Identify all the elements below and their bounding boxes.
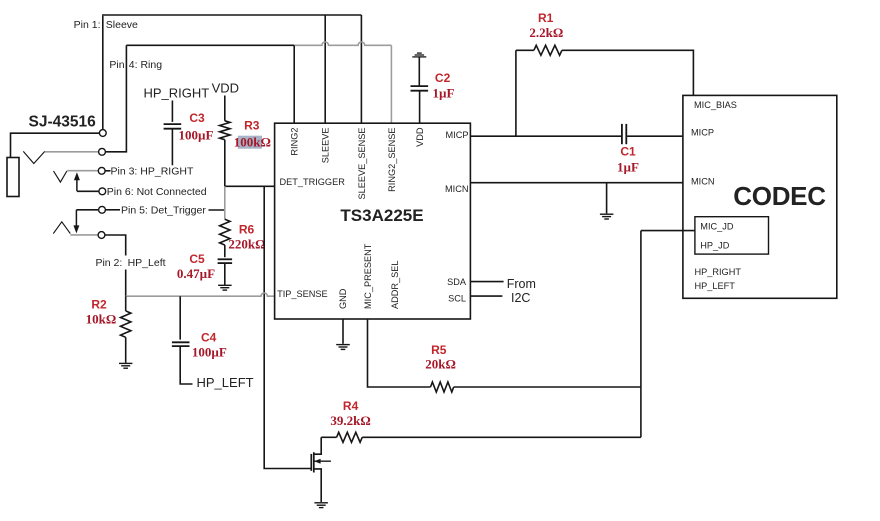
svg-text:Pin: Pin: [109, 59, 124, 71]
wire R4 to MIC_JD node: [362, 436, 641, 438]
svg-text:1µF: 1µF: [617, 159, 639, 174]
resistor R4: [337, 432, 363, 442]
svg-text:Sleeve: Sleeve: [106, 19, 138, 31]
svg-text:10kΩ: 10kΩ: [86, 312, 117, 327]
wire MICN ground stub: [606, 183, 608, 214]
wire C2 to inverted ground: [418, 57, 420, 86]
wire pin3 spring to contact (gray): [67, 170, 98, 172]
svg-text:MICN: MICN: [691, 177, 714, 187]
svg-text:TS3A225E: TS3A225E: [340, 206, 423, 225]
wire Q1 drain: [314, 437, 321, 454]
jack ring spring contact: [23, 151, 45, 163]
wire ring drop to RING2 pin: [293, 45, 295, 123]
svg-text:HP_LEFT: HP_LEFT: [695, 281, 736, 291]
wire HP_RIGHT to C3: [171, 101, 173, 122]
wire pin6 contact to arrow: [77, 190, 99, 192]
svg-text:SDA: SDA: [447, 277, 467, 287]
switch arrow down (pin5 to pin2 contact): [75, 210, 77, 227]
wire MICN to CODEC: [470, 182, 683, 184]
wire ring contact up to Pin4 net: [105, 45, 126, 152]
wire drain to R4: [321, 436, 336, 438]
svg-text:RING2: RING2: [290, 128, 300, 156]
wire SDA: [470, 281, 503, 283]
wire to R1: [516, 49, 534, 51]
resistor R6: [220, 219, 230, 245]
wire C1 to CODEC MICP: [627, 135, 683, 137]
jack tip spring contact (pin 3): [54, 171, 67, 182]
jack pin 2 contact: [98, 232, 105, 239]
svg-text:R2: R2: [91, 298, 107, 312]
wire pin5 contact to switch arrow: [76, 209, 98, 211]
highlight box on 100k: [238, 136, 262, 149]
svg-text:2.2kΩ: 2.2kΩ: [529, 25, 563, 40]
svg-text:220kΩ: 220kΩ: [228, 237, 265, 252]
svg-text:C1: C1: [620, 145, 636, 159]
wire R5 to MIC_JD node: [454, 386, 641, 388]
svg-text:100µF: 100µF: [179, 128, 214, 143]
svg-text:MICP: MICP: [446, 130, 469, 140]
connector SJ-43516 jack body: [7, 158, 19, 197]
svg-text:SJ-43516: SJ-43516: [29, 114, 97, 131]
wire GND pin to ground: [342, 319, 344, 344]
ground under Q1: [314, 502, 328, 504]
wire Pin 4: Ring net run with hops over sleeve wires: [126, 44, 294, 46]
wire ring spring to contact (gray): [45, 151, 100, 153]
svg-text:RING2_SENSE: RING2_SENSE: [387, 128, 397, 192]
ground above C2 (inverted): [412, 56, 426, 58]
ground under R2: [119, 362, 132, 364]
wire SCL: [470, 295, 502, 297]
ground under GND pin: [336, 344, 350, 346]
svg-text:I2C: I2C: [511, 291, 530, 305]
svg-text:SLEEVE_SENSE: SLEEVE_SENSE: [357, 128, 367, 200]
wire C5 to ground: [224, 263, 226, 285]
svg-text:MIC_PRESENT: MIC_PRESENT: [363, 243, 373, 309]
wire MIC_JD vertical node: [640, 231, 642, 438]
svg-text:R3: R3: [244, 118, 260, 132]
wire MICP to R1 branch: [470, 135, 621, 137]
svg-text:C4: C4: [201, 330, 217, 344]
wire det node down to R6 (gray): [224, 186, 226, 219]
wire C4 to HP_LEFT label: [180, 347, 192, 385]
svg-text:39.2kΩ: 39.2kΩ: [330, 413, 370, 428]
wire R1 left leg: [515, 50, 517, 136]
svg-text:From: From: [507, 277, 536, 291]
svg-text:1µF: 1µF: [433, 85, 455, 100]
wire node to MIC_JD box: [641, 230, 695, 232]
switch arrow up (pin6 to pin3 contact): [76, 179, 78, 191]
wire VDD pin to C2: [419, 91, 421, 123]
wire sleeve contact up to Pin1 net: [102, 16, 104, 130]
wire to R2: [125, 296, 127, 311]
svg-text:C2: C2: [435, 71, 451, 85]
svg-text:Pin 3: HP_RIGHT: Pin 3: HP_RIGHT: [111, 165, 194, 177]
jack pin 6 contact: [99, 188, 106, 195]
wire TIP_SENSE net (gray, hop at gate line): [126, 293, 275, 296]
svg-text:Pin 6: Not Connected: Pin 6: Not Connected: [107, 186, 207, 198]
svg-text:R6: R6: [239, 223, 255, 237]
jack pin 3 contact: [98, 167, 105, 174]
wire DET_TRIGGER: [225, 185, 275, 187]
svg-text:HP_JD: HP_JD: [700, 240, 729, 250]
svg-text:4: Ring: 4: Ring: [129, 59, 162, 71]
svg-text:Pin 2:: Pin 2:: [95, 257, 122, 269]
svg-text:R5: R5: [431, 343, 447, 357]
svg-text:100kΩ: 100kΩ: [234, 134, 271, 149]
svg-text:20kΩ: 20kΩ: [425, 357, 456, 372]
wire pin2 spring to contact (gray): [70, 234, 98, 236]
svg-text:R4: R4: [343, 399, 359, 413]
wire Pin 1: Sleeve net (top run): [102, 14, 361, 16]
capacitor C3: [164, 123, 182, 125]
svg-text:SCL: SCL: [448, 294, 466, 304]
ground on MICN line: [600, 213, 614, 215]
resistor R3: [220, 121, 230, 140]
IC TS3A225E box: [275, 123, 471, 319]
wire sleeve drop to SLEEVE_SENSE pin: [360, 15, 362, 123]
svg-text:SLEEVE: SLEEVE: [321, 128, 331, 164]
svg-text:VDD: VDD: [415, 127, 425, 147]
svg-text:ADDR_SEL: ADDR_SEL: [390, 260, 400, 309]
svg-text:TIP_SENSE: TIP_SENSE: [277, 289, 328, 299]
box MIC_JD/HP_JD: [695, 217, 769, 254]
svg-text:DET_TRIGGER: DET_TRIGGER: [280, 177, 346, 187]
svg-text:Pin 1:: Pin 1:: [74, 19, 101, 31]
resistor R2: [121, 311, 131, 337]
wire Q1 source to ground: [314, 469, 321, 502]
svg-text:HP_RIGHT: HP_RIGHT: [695, 267, 742, 277]
resistor R1: [534, 45, 562, 55]
svg-text:Pin 5: Det_Trigger: Pin 5: Det_Trigger: [121, 205, 206, 217]
wire R3 to DET_TRIGGER node: [224, 140, 226, 187]
wire TIP_SENSE to C4: [179, 296, 181, 339]
jack pin 5 contact: [99, 206, 106, 213]
svg-text:CODEC: CODEC: [733, 181, 826, 211]
jack pin2 spring contact: [53, 222, 70, 234]
wire pin5 label to DET_TRIGGER net: [209, 209, 225, 211]
capacitor C2: [411, 85, 429, 87]
capacitor C4: [172, 341, 190, 343]
wire VDD to R3: [224, 96, 226, 121]
wire R1 to CODEC MIC_BIAS: [562, 50, 694, 95]
wire DET_TRIGGER node to MOSFET gate (with hop over TIP_SENSE): [264, 186, 311, 468]
svg-text:C5: C5: [189, 252, 205, 266]
svg-text:C3: C3: [189, 111, 205, 125]
wire R2 to ground: [125, 337, 127, 363]
block CODEC: [683, 95, 837, 298]
wire R6 to C5: [224, 245, 226, 257]
capacitor C1 (series, vertical plates): [621, 124, 623, 144]
svg-text:100µF: 100µF: [192, 345, 227, 360]
svg-text:MICN: MICN: [445, 184, 468, 194]
wire C3 to pin3 net: [171, 129, 173, 166]
jack pin 1 sleeve contact: [99, 130, 106, 137]
svg-text:GND: GND: [338, 288, 348, 309]
svg-text:HP_LEFT: HP_LEFT: [197, 375, 254, 390]
wire pin5 contact to label: [105, 209, 120, 211]
wire pin3 contact to label: [105, 170, 110, 172]
Q1 body arrow: [314, 460, 331, 462]
wire pin2 contact down to TIP_SENSE net: [105, 235, 126, 256]
svg-text:MICP: MICP: [691, 128, 714, 138]
wire ring-sense drop to RING2_SENSE pin (gray): [390, 45, 392, 123]
svg-text:MIC_BIAS: MIC_BIAS: [694, 100, 737, 110]
jack pin 4 ring contact: [99, 148, 106, 155]
wire MIC_PRESENT to R5: [368, 319, 431, 387]
capacitor C5: [218, 258, 233, 260]
svg-text:0.47µF: 0.47µF: [177, 266, 215, 281]
wire sleeve drop to SLEEVE pin: [324, 15, 326, 123]
svg-text:HP_Left: HP_Left: [128, 257, 166, 269]
svg-text:R1: R1: [538, 11, 554, 25]
ground under C5: [218, 284, 232, 286]
svg-text:VDD: VDD: [212, 80, 239, 95]
resistor R5: [431, 382, 454, 392]
svg-text:MIC_JD: MIC_JD: [700, 222, 734, 232]
transistor Q1 NMOS: [310, 454, 312, 471]
svg-text:HP_RIGHT: HP_RIGHT: [144, 86, 210, 101]
wire jack body to sleeve contact: [11, 133, 100, 157]
